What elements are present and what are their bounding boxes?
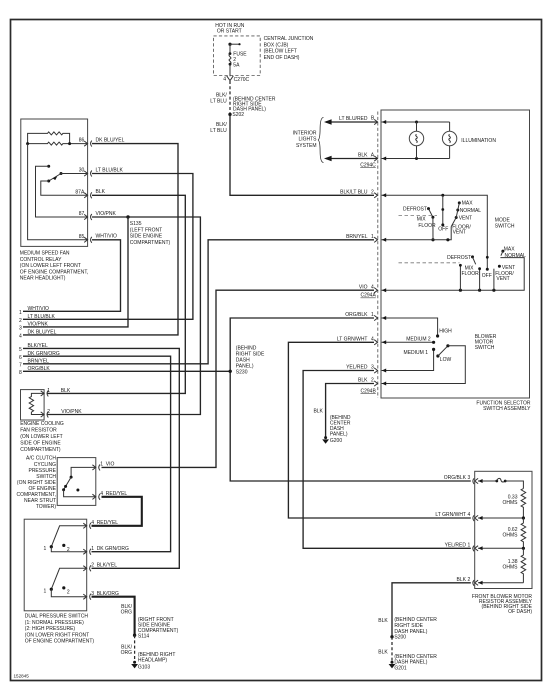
wire BLK pin A to interior lights [324, 153, 378, 162]
svg-text:C270C: C270C [234, 77, 250, 83]
svg-text:4: 4 [91, 520, 94, 526]
svg-text:MEDIUM SPEED FAN: MEDIUM SPEED FAN [20, 251, 70, 257]
svg-text:OF ENGINE COMPARTMENT,: OF ENGINE COMPARTMENT, [20, 269, 88, 275]
dual switch A contact lead [51, 547, 86, 552]
svg-text:VIO/PNK: VIO/PNK [96, 211, 117, 217]
svg-text:OR START: OR START [217, 29, 242, 35]
svg-text:COMPARTMENT): COMPARTMENT) [20, 447, 61, 453]
dual switch pin symbols [83, 523, 91, 600]
blower resistor pin 3 ORG/BLK [444, 475, 478, 484]
svg-text:(2: HIGH PRESSURE): (2: HIGH PRESSURE) [25, 626, 76, 632]
svg-text:INTERIOR: INTERIOR [293, 131, 317, 137]
mode switch bank 1 mix floor riser [417, 217, 436, 242]
svg-text:VENT: VENT [496, 276, 509, 282]
blower motor switch medium 1 contact [382, 348, 436, 373]
svg-text:CONTROL RELAY: CONTROL RELAY [20, 257, 62, 263]
svg-text:BLK: BLK [358, 153, 368, 159]
dual pressure switch box [24, 519, 86, 611]
svg-text:G103: G103 [138, 664, 150, 670]
svg-text:MEDIUM 2: MEDIUM 2 [406, 337, 431, 343]
svg-text:6: 6 [19, 355, 22, 361]
blower motor switch low contact and arm [436, 344, 451, 363]
svg-text:S114: S114 [138, 634, 150, 640]
mode switch bank 2 mix floor riser [459, 264, 479, 290]
svg-text:DUAL PRESSURE SWITCH: DUAL PRESSURE SWITCH [25, 614, 89, 620]
ground G200 [322, 415, 351, 444]
svg-text:87A: 87A [75, 189, 85, 195]
blower motor switch common lead [382, 346, 466, 386]
wire YEL/RED function selector pin 3 to blower resistor pin 1 [303, 371, 471, 549]
svg-text:WHT/VIO: WHT/VIO [96, 234, 117, 240]
function selector pin 2 BLK [358, 378, 378, 386]
svg-text:LT BLU/BLK: LT BLU/BLK [96, 167, 124, 173]
svg-text:BLK/LT BLU: BLK/LT BLU [340, 190, 368, 196]
relay switch arm [49, 174, 61, 182]
svg-text:PANEL): PANEL) [330, 432, 348, 438]
svg-text:VIO: VIO [106, 462, 115, 468]
mode switch bank 1 off feed [438, 194, 448, 233]
svg-text:DK BLU/YEL: DK BLU/YEL [28, 330, 57, 336]
svg-text:NORMAL: NORMAL [460, 208, 482, 214]
svg-text:SWITCH: SWITCH [36, 474, 56, 480]
function selector pin 4 VIO [359, 284, 378, 292]
svg-text:FLOOR: FLOOR [418, 223, 436, 229]
A/C switch label [16, 456, 56, 510]
svg-text:C294B: C294B [361, 388, 377, 394]
illumination lamp 1 [409, 122, 423, 159]
stub connector pin 5 BLK/YEL [19, 343, 48, 353]
svg-text:1: 1 [47, 388, 50, 394]
blower resistor assembly label [472, 594, 533, 615]
wire fuse to connector C270C [229, 64, 231, 76]
svg-text:85: 85 [79, 234, 85, 240]
ground G103 [131, 652, 175, 670]
mode switch bank 1 dashed detent line [399, 215, 438, 217]
svg-text:1: 1 [371, 312, 374, 318]
svg-text:NEAR HEADLIGHT): NEAR HEADLIGHT) [20, 276, 66, 282]
svg-text:1: 1 [100, 462, 103, 468]
A/C switch arm and contacts [62, 476, 79, 492]
svg-text:VIO/PNK: VIO/PNK [61, 409, 82, 415]
svg-text:ORG/BLK: ORG/BLK [345, 312, 368, 318]
mode switch bank 1 defrost contact [403, 207, 434, 219]
function selector pin 2 BLK/LT BLU [340, 190, 377, 198]
svg-text:LT BLU/RED: LT BLU/RED [339, 116, 368, 122]
connector C270C [223, 76, 249, 83]
mode switch bank 2 off contact [482, 256, 492, 279]
svg-text:(BELOW LEFT: (BELOW LEFT [264, 49, 297, 55]
svg-text:1: 1 [468, 543, 471, 549]
svg-text:TOWER): TOWER) [36, 504, 57, 510]
svg-text:DEFROST: DEFROST [403, 207, 427, 213]
blower resistor pin 2 BLK [457, 577, 524, 586]
mode switch bank 1 output rail [382, 227, 452, 242]
fan resistor element [29, 393, 44, 414]
splice S230 [229, 345, 265, 375]
svg-text:LT BLU/BLK: LT BLU/BLK [28, 314, 56, 320]
mode switch bank 2 output rail [382, 258, 525, 293]
interior lights system brace and label [293, 118, 324, 163]
relay contact 87A lead [41, 180, 88, 196]
svg-text:SIDE ENGINE: SIDE ENGINE [130, 234, 163, 240]
wire BLK function selector pin 2 to ground G200 [313, 384, 374, 438]
svg-text:OFF: OFF [438, 227, 448, 233]
svg-text:2: 2 [67, 590, 70, 596]
fan resistor pin labels [47, 388, 82, 415]
wire BLK/YEL dual switch to stub 5 [23, 348, 179, 568]
wire WHT/VIO relay 85 to stub 1 [23, 234, 121, 312]
wire BLK/ORG dual switch to splice S114 [92, 597, 135, 636]
fan resistor pin symbols [41, 390, 49, 417]
function selector pin 1 BRN/YEL [346, 234, 378, 242]
relay pin symbols [84, 141, 92, 243]
svg-text:VENT: VENT [459, 216, 472, 222]
svg-text:HEADLAMP): HEADLAMP) [138, 658, 168, 664]
stub connector pin 8 ORG/BLK [19, 366, 50, 376]
svg-text:COMPARTMENT): COMPARTMENT) [130, 240, 171, 246]
label central junction box [264, 36, 314, 61]
svg-text:SYSTEM: SYSTEM [296, 143, 317, 149]
relay coil lead to pin 85 [28, 144, 88, 240]
wire BLK blower resistor pin 2 to splice S200 [378, 583, 471, 637]
svg-text:FAN RESISTOR: FAN RESISTOR [20, 427, 57, 433]
stub connector pin 4 DK BLU/YEL [19, 330, 57, 340]
relay pin numbers [75, 138, 85, 240]
splice S114 [133, 617, 179, 640]
svg-text:OHMS: OHMS [503, 500, 519, 506]
svg-text:S135: S135 [130, 221, 142, 227]
blower motor switch high contact [382, 316, 453, 338]
blower resistor 0.62 ohms [503, 518, 526, 548]
svg-text:5: 5 [19, 347, 22, 353]
blower resistor thermal limiter [478, 478, 523, 488]
ground G201 [389, 654, 438, 672]
svg-text:BLK: BLK [378, 618, 388, 624]
function selector pin 1 ORG/BLK [345, 312, 377, 320]
wire LT GRN/WHT function selector pin 4 to blower resistor pin 4 [288, 342, 470, 518]
svg-text:2: 2 [47, 409, 50, 415]
svg-text:OHMS: OHMS [503, 565, 519, 571]
svg-text:1: 1 [91, 546, 94, 552]
A/C switch pin labels [100, 462, 127, 497]
wire RED/YEL A/C switch to dual pressure switch [92, 497, 142, 526]
svg-text:1: 1 [44, 588, 47, 594]
svg-text:BLK/YEL: BLK/YEL [97, 563, 118, 569]
svg-text:LT GRN/WHT: LT GRN/WHT [435, 512, 466, 518]
wire BLK/LT BLU (dashed to splice S202) [210, 81, 230, 113]
wire ORG/BLK stub 8 to splice S230 [23, 370, 230, 372]
svg-text:BLK: BLK [457, 577, 467, 583]
svg-text:WHT/VIO: WHT/VIO [28, 306, 49, 312]
svg-text:DEFROST: DEFROST [447, 255, 471, 261]
svg-text:HIGH: HIGH [439, 329, 452, 335]
wire BLK S200 to ground (dashed) [378, 637, 392, 662]
svg-text:1: 1 [19, 310, 22, 316]
splice S202 [228, 96, 276, 118]
function selector switch assembly label [476, 401, 531, 413]
svg-text:SWITCH ASSEMBLY: SWITCH ASSEMBLY [483, 406, 531, 412]
A/C clutch cycling pressure switch box [57, 458, 96, 506]
splice S200 [390, 617, 437, 641]
mode switch bank 2 floor/vent riser [494, 265, 515, 290]
svg-text:OHMS: OHMS [503, 533, 519, 539]
svg-text:OFF: OFF [482, 273, 492, 279]
svg-text:A/C CLUTCH: A/C CLUTCH [26, 456, 56, 462]
dual switch B contact lead [51, 589, 86, 597]
svg-text:NORMAL: NORMAL [505, 253, 527, 259]
svg-text:VIO/PNK: VIO/PNK [28, 322, 49, 328]
connector C294 dashed line [377, 112, 379, 399]
svg-text:YEL/RED: YEL/RED [346, 365, 368, 371]
wire VIO A/C switch to function selector pin 4 [102, 290, 375, 467]
dual switch B arm [44, 568, 87, 595]
svg-text:4: 4 [371, 337, 374, 343]
svg-text:BRN/YEL: BRN/YEL [346, 234, 368, 240]
wire VIO/PNK relay 87 to fan resistor pin 2 [47, 211, 200, 415]
mode switch bank 2 defrost contact [447, 255, 476, 264]
wire LT BLU/BLK relay 30 to stub 2 [23, 167, 193, 319]
front blower motor resistor assembly box [475, 471, 532, 588]
svg-text:MEDIUM 1: MEDIUM 1 [404, 350, 429, 356]
wire BRN/YEL stub 7 to function selector pin 1 [23, 240, 374, 364]
svg-text:BLK: BLK [378, 650, 388, 656]
mode switch label [495, 217, 515, 229]
svg-text:FLOOR: FLOOR [462, 271, 480, 277]
svg-text:VENT: VENT [453, 230, 466, 236]
svg-text:MIX: MIX [417, 217, 427, 223]
svg-text:3: 3 [19, 326, 22, 332]
svg-text:3: 3 [371, 365, 374, 371]
mode switch bank 1 rail from pin 2 [382, 193, 488, 269]
svg-text:MAX: MAX [504, 246, 516, 252]
relay common pin 30 lead [60, 172, 88, 175]
svg-text:BOX (CJB): BOX (CJB) [264, 42, 289, 48]
function selector pin 4 LT GRN/WHT [337, 337, 378, 345]
illumination lamp rails [382, 120, 450, 161]
engine cooling fan resistor label [20, 421, 64, 453]
svg-text:(1: NORMAL PRESSURE): (1: NORMAL PRESSURE) [25, 620, 84, 626]
svg-text:4: 4 [468, 512, 471, 518]
svg-text:G200: G200 [330, 438, 342, 444]
svg-text:BLK: BLK [313, 409, 323, 415]
svg-text:OF ENGINE COMPARTMENT): OF ENGINE COMPARTMENT) [25, 639, 95, 645]
svg-text:MODE: MODE [495, 217, 511, 223]
svg-text:152845: 152845 [14, 674, 30, 679]
svg-text:30: 30 [79, 168, 85, 174]
svg-text:LOW: LOW [440, 357, 452, 363]
svg-text:ORG/BLK: ORG/BLK [444, 475, 467, 481]
svg-text:7: 7 [19, 363, 22, 369]
svg-text:2: 2 [468, 577, 471, 583]
svg-text:3: 3 [468, 475, 471, 481]
svg-text:LT BLU: LT BLU [210, 98, 227, 104]
svg-text:S230: S230 [236, 369, 248, 375]
svg-text:DK GRN/ORG: DK GRN/ORG [97, 546, 129, 552]
blower resistor 1.38 ohms [503, 548, 526, 583]
svg-text:LT BLU: LT BLU [210, 128, 227, 134]
svg-text:S200: S200 [394, 635, 406, 641]
svg-text:SWITCH: SWITCH [475, 345, 495, 351]
stub connector pin 1 WHT/VIO [19, 306, 49, 316]
blower resistor pin 4 LT GRN/WHT [435, 512, 525, 521]
central junction box (dashed) [214, 36, 261, 76]
wire DK GRN/ORG dual switch to stub 6 [23, 356, 171, 552]
svg-text:4: 4 [371, 284, 374, 290]
svg-text:SWITCH: SWITCH [495, 224, 515, 230]
mode switch bank 2 floor riser [478, 267, 481, 290]
dual pressure switch label [25, 614, 95, 645]
svg-text:ILLUMINATION: ILLUMINATION [461, 138, 496, 144]
svg-text:BLK: BLK [358, 378, 368, 384]
dual switch A arm [44, 526, 87, 553]
relay coil [26, 132, 88, 145]
splice S135 [126, 215, 170, 246]
stub connector pin 6 DK GRN/ORG [19, 351, 60, 361]
svg-text:LIGHTS: LIGHTS [298, 137, 317, 143]
svg-text:2: 2 [19, 318, 22, 324]
svg-text:(ON LOWER LEFT FRONT: (ON LOWER LEFT FRONT [20, 263, 81, 269]
blower motor switch label [475, 334, 497, 351]
stub connector pin 7 BRN/YEL [19, 359, 49, 369]
wire tap to fuse [229, 44, 231, 53]
wire BLK/LT BLU from S202 to function selector pin 2 [210, 114, 374, 195]
stub connector pin 2 LT BLU/BLK [19, 314, 55, 324]
blower resistor pin 1 YEL/RED [445, 543, 525, 552]
svg-text:ORG: ORG [121, 650, 133, 656]
engine cooling fan resistor box [21, 390, 45, 420]
svg-text:BLK: BLK [61, 388, 71, 394]
svg-text:8: 8 [19, 370, 22, 376]
svg-text:(ON LOWER RIGHT FRONT: (ON LOWER RIGHT FRONT [25, 632, 89, 638]
blower motor switch medium 2 contact [382, 337, 436, 345]
svg-text:YEL/RED: YEL/RED [445, 543, 467, 549]
wire VIO/PNK S135 to stub 3 [23, 217, 128, 327]
dual switch pin labels [91, 520, 129, 597]
illumination lamp 2 [442, 122, 456, 159]
svg-text:VIO: VIO [359, 284, 368, 290]
svg-text:2: 2 [91, 563, 94, 569]
svg-text:86: 86 [79, 138, 85, 144]
mode switch bank 1 max-normal-vent arc [451, 201, 481, 236]
svg-text:4: 4 [19, 334, 22, 340]
svg-text:C294A: C294A [361, 293, 377, 299]
svg-text:S202: S202 [232, 112, 244, 118]
svg-text:MAX: MAX [462, 201, 474, 207]
svg-text:1: 1 [44, 546, 47, 552]
wire ORG/BLK function selector pin 1 to blower resistor pin 3 [230, 318, 471, 481]
mode switch bank 2 dashed detent line [399, 262, 460, 264]
stub connector pin 3 VIO/PNK [19, 322, 48, 332]
svg-text:END OF DASH): END OF DASH) [264, 55, 300, 61]
fuse 2 5A [229, 51, 248, 68]
node HOT IN RUN OR START [215, 23, 244, 35]
wire DK BLU/YEL relay 86 to stub 4 [23, 138, 178, 335]
relay M1 medium speed fan control relay box [21, 119, 88, 246]
blower resistor 0.33 ohms [503, 489, 526, 519]
svg-text:(LEFT FRONT: (LEFT FRONT [130, 227, 162, 233]
svg-text:BLK: BLK [96, 189, 106, 195]
svg-text:SIDE OF ENGINE: SIDE OF ENGINE [20, 441, 61, 447]
A/C switch pin 4 lead [64, 490, 96, 497]
svg-text:2: 2 [371, 378, 374, 384]
svg-text:ENGINE COOLING: ENGINE COOLING [20, 421, 64, 427]
svg-text:87: 87 [79, 211, 85, 217]
relay label [20, 251, 88, 282]
svg-text:CENTRAL JUNCTION: CENTRAL JUNCTION [264, 36, 314, 42]
svg-text:4: 4 [223, 77, 226, 83]
svg-text:C294C: C294C [360, 163, 376, 169]
wire LT BLU/RED pin B to interior lights [324, 116, 378, 125]
function selector switch assembly box [381, 110, 530, 398]
svg-text:2: 2 [371, 190, 374, 196]
svg-text:5A: 5A [233, 63, 240, 69]
A/C switch pin 1 lead [71, 467, 96, 477]
hot feed bus tap [228, 43, 240, 46]
svg-text:OF DASH): OF DASH) [508, 609, 532, 615]
wire BLK/ORG S114 to ground (dashed) [121, 635, 135, 662]
relay contact 87 lead [36, 165, 88, 217]
svg-text:1: 1 [371, 234, 374, 240]
svg-text:LT GRN/WHT: LT GRN/WHT [337, 337, 368, 343]
svg-text:(ON LOWER LEFT: (ON LOWER LEFT [20, 434, 63, 440]
A/C switch pin symbols [92, 464, 100, 499]
svg-text:ORG: ORG [121, 610, 133, 616]
svg-text:DK BLU/YEL: DK BLU/YEL [96, 138, 125, 144]
svg-text:RED/YEL: RED/YEL [97, 520, 119, 526]
mode switch bank 2 max normal contact [501, 246, 526, 259]
svg-text:G201: G201 [394, 666, 406, 672]
function selector pin 3 YEL/RED [346, 365, 378, 373]
wire BLK relay 87A to fan resistor pin 1 [47, 189, 185, 393]
